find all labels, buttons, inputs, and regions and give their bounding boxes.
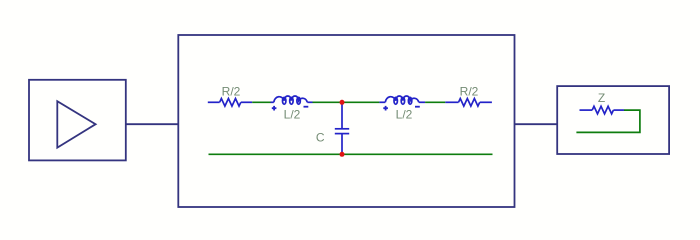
wire R2 left lead — [445, 101, 458, 103]
inductor L/2 left — [274, 96, 308, 104]
wire R1 left lead — [208, 101, 220, 103]
bottom rail wire — [209, 153, 493, 155]
node top junction — [340, 100, 345, 105]
wire green node to L2 — [342, 101, 379, 103]
wire network box to load box — [515, 123, 558, 125]
wire L1 right lead — [307, 101, 312, 103]
resistor Z — [592, 106, 613, 114]
node bottom junction — [340, 152, 345, 157]
plus mark L2 — [383, 106, 388, 111]
wire R1 right lead — [241, 101, 252, 103]
minus mark L2 — [415, 106, 420, 108]
wire green L2 to R2 — [425, 101, 445, 103]
wire source to network box — [126, 123, 179, 125]
wire L2 left lead — [379, 101, 385, 103]
wire Z right lead — [613, 109, 624, 111]
load box — [557, 86, 669, 154]
minus mark L1 — [304, 106, 309, 108]
wire green load loop — [576, 110, 640, 132]
wire green R1 to L1 — [252, 101, 270, 103]
plus mark L1 — [272, 106, 277, 111]
svg-text:C: C — [316, 130, 325, 144]
resistor R/2 left — [220, 99, 241, 107]
svg-text:R/2: R/2 — [460, 84, 479, 98]
source box — [29, 80, 126, 161]
wire green L1 to node — [313, 101, 343, 103]
capacitor C — [335, 102, 349, 154]
wire R2 right lead — [480, 101, 492, 103]
amplifier triangle — [57, 101, 95, 147]
resistor R/2 right — [459, 99, 480, 107]
inductor L/2 right — [385, 96, 419, 104]
svg-text:R/2: R/2 — [222, 84, 241, 98]
svg-text:Z: Z — [598, 91, 605, 105]
network box — [178, 35, 514, 207]
wire L2 right lead — [419, 101, 425, 103]
wire L1 left lead — [271, 101, 274, 103]
svg-text:L/2: L/2 — [396, 107, 413, 121]
svg-text:L/2: L/2 — [284, 107, 301, 121]
wire Z left lead — [580, 109, 593, 111]
